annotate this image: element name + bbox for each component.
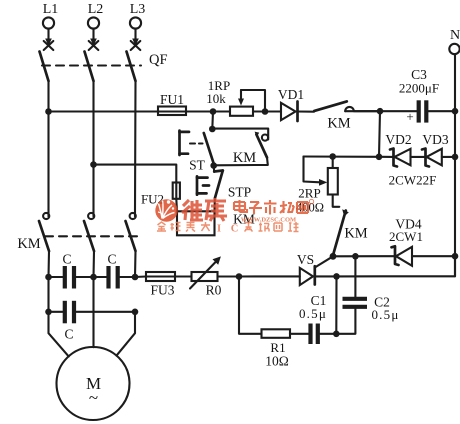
svg-text:FU3: FU3 <box>150 283 174 298</box>
svg-text:R0: R0 <box>206 283 222 298</box>
wire L2 vertical <box>92 81 94 210</box>
breaker QF linkage dashed <box>42 64 141 66</box>
node FU2 tap on L2 <box>90 161 97 168</box>
wire pole1 down <box>47 251 50 277</box>
svg-text:+: + <box>406 109 413 124</box>
zener diode VD3 2CW22F <box>422 132 449 167</box>
svg-text:KM: KM <box>17 236 40 252</box>
rheostat R0 <box>190 256 222 297</box>
svg-text:10k: 10k <box>206 91 226 106</box>
contact KM (main NO contact on control rail) <box>314 101 380 131</box>
contactor KM pole 3 <box>126 210 136 251</box>
node 1RP right <box>262 108 269 115</box>
wire VD2 to VD3 <box>411 156 426 158</box>
svg-text:~: ~ <box>89 388 98 407</box>
svg-text:C: C <box>62 252 71 267</box>
svg-text:0.5μ: 0.5μ <box>299 306 327 321</box>
node snubber left <box>236 273 243 280</box>
wire 2RP bottom jog <box>333 195 340 207</box>
node phase C row2 <box>132 309 139 316</box>
disconnect mark L3 <box>131 41 141 50</box>
svg-text:N: N <box>450 28 460 43</box>
contactor KM pole 1 <box>39 210 49 251</box>
capacitor C (between phase B and C) <box>94 252 136 289</box>
pushbutton ST (NO start) <box>180 131 215 173</box>
wire L1 vertical <box>47 81 49 210</box>
wire C2 branch <box>354 256 356 297</box>
node gate row N bus <box>452 253 459 260</box>
svg-text:VD3: VD3 <box>422 132 448 147</box>
wire C2 to bottom branch <box>336 309 355 334</box>
svg-text:2CW1: 2CW1 <box>389 229 423 244</box>
wire L3 drop to disconnect <box>132 29 139 46</box>
wire VS to cathode node <box>315 275 337 277</box>
svg-text:2RP: 2RP <box>298 186 320 201</box>
svg-text:FU1: FU1 <box>160 92 184 107</box>
node phase B row1 <box>90 274 97 281</box>
svg-text:KM: KM <box>327 116 350 132</box>
wire L3 vertical <box>134 81 137 210</box>
wire control rail left <box>49 110 159 112</box>
svg-text:ST: ST <box>189 158 206 173</box>
node phase A row1 <box>45 274 52 281</box>
node C3 left / zener branch <box>377 108 384 115</box>
wire zener row left to VD2 <box>379 156 394 158</box>
node zener row N bus <box>452 154 459 161</box>
node C2 top <box>352 253 359 260</box>
node VS cathode <box>333 273 340 280</box>
wire R1 to C1 <box>290 333 308 335</box>
coil KM (contactor coil) <box>177 211 255 235</box>
wire phase B to motor <box>92 277 94 347</box>
breaker QF pole 1 blade <box>40 52 49 82</box>
wire pole2 down <box>92 251 95 277</box>
breaker QF pole 2 blade <box>85 52 94 82</box>
wire VD4 to N bus <box>412 255 455 257</box>
wire zener branch vertical <box>379 111 380 157</box>
disconnect mark L1 <box>44 41 54 50</box>
wire C1 to snubber bottom node <box>320 333 336 335</box>
contact KM (gate circuit NO contact) <box>333 209 368 254</box>
wire phase A to motor <box>49 277 69 356</box>
svg-text:L3: L3 <box>130 2 146 17</box>
motor M <box>57 347 130 420</box>
node snubber bottom <box>333 331 340 338</box>
svg-text:C: C <box>231 223 239 234</box>
wire VD3 to N bus <box>442 156 455 158</box>
svg-text:L1: L1 <box>43 2 59 17</box>
resistor R1 10ohm <box>262 329 291 368</box>
wire gate row <box>333 255 395 257</box>
disconnect mark L2 <box>89 41 99 50</box>
wire VD1 to KM contact <box>298 110 315 112</box>
wire to VD1 <box>253 110 281 112</box>
potentiometer 2RP with wiper <box>296 157 338 215</box>
svg-text:10Ω: 10Ω <box>265 354 289 369</box>
capacitor C2 0.5u <box>343 295 400 323</box>
node phase A row2 <box>45 309 52 316</box>
terminal L3 <box>130 2 146 29</box>
capacitor C (between phase A and B) <box>49 252 92 289</box>
svg-text:L2: L2 <box>88 2 104 17</box>
wire pole3 down <box>134 251 137 277</box>
node 1RP left <box>210 108 217 115</box>
svg-text:VD1: VD1 <box>278 87 304 102</box>
node L1 / control rail <box>45 108 52 115</box>
svg-text:2CW22F: 2CW22F <box>389 173 437 188</box>
wire zener row to 2RP top <box>304 155 380 157</box>
breaker QF pole 3 blade <box>127 52 136 82</box>
zener diode VD2 2CW22F <box>385 132 411 167</box>
wire phase C to motor <box>117 312 136 356</box>
watermark <box>155 198 313 234</box>
contact KM (self-holding aux, parallel with ST) <box>212 129 268 166</box>
wire ST branch drop <box>211 112 214 130</box>
wire C3 to N bus <box>428 110 455 112</box>
node ST top <box>209 126 216 133</box>
thyristor VS <box>297 252 333 285</box>
svg-text:0.5μ: 0.5μ <box>371 307 399 322</box>
svg-text:KM: KM <box>233 150 256 166</box>
wire node to C3 <box>380 110 417 112</box>
pushbutton STP (NC stop) <box>197 166 251 212</box>
node N bus top rail <box>452 108 459 115</box>
node phase C row1 / tap to FU3 <box>132 274 139 281</box>
potentiometer 1RP <box>206 78 265 116</box>
fuse FU1 <box>158 92 186 115</box>
svg-text:VS: VS <box>297 252 314 267</box>
wire node to VS <box>239 275 300 277</box>
diode VD1 <box>278 87 304 121</box>
wire L2 drop to disconnect <box>90 29 97 46</box>
wire FU3 to R0 <box>175 275 192 277</box>
wire R0 to snubber node <box>218 275 240 277</box>
wire FU2 to coil <box>175 199 178 212</box>
wire KM contact to C3 node <box>355 110 380 112</box>
wire rail to N bus corner <box>337 256 456 276</box>
wire cathode node to snubber bottom <box>335 276 337 333</box>
svg-text:VD2: VD2 <box>385 132 411 147</box>
zener diode VD4 2CW1 <box>389 217 423 266</box>
svg-text:QF: QF <box>149 52 168 68</box>
contactor KM pole 2 <box>84 210 94 251</box>
wire tap to FU3 <box>135 275 146 278</box>
node zener row left <box>376 154 383 161</box>
capacitor C1 0.5u <box>299 293 327 344</box>
svg-text:C: C <box>107 252 116 267</box>
terminal L2 <box>88 2 104 29</box>
capacitor C3 2200uF polarized <box>399 67 439 124</box>
terminal N <box>449 28 460 54</box>
contactor KM linkage dashed <box>45 235 139 237</box>
svg-text:2200μF: 2200μF <box>399 81 439 96</box>
wire FU1 to 1RP node <box>186 110 230 112</box>
svg-text:STP: STP <box>228 185 251 200</box>
node 2RP top <box>329 153 336 160</box>
wire snubber left drop <box>239 277 262 334</box>
wire L1 drop to disconnect <box>45 29 52 46</box>
wire L2 to FU2 <box>94 165 177 183</box>
wire N bus <box>454 54 456 276</box>
terminal L1 <box>43 2 59 29</box>
capacitor C (between phase A and C, row2) <box>49 301 136 342</box>
svg-text:C: C <box>64 327 73 342</box>
fuse FU3 <box>146 272 175 298</box>
svg-text:KM: KM <box>344 226 367 242</box>
svg-text:I: I <box>217 223 221 234</box>
node gate <box>330 253 337 260</box>
fuse FU2 <box>141 183 180 207</box>
node ST bottom <box>210 162 217 169</box>
